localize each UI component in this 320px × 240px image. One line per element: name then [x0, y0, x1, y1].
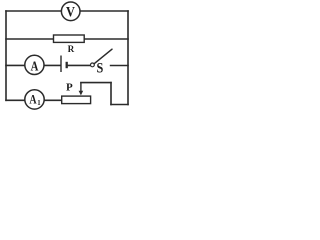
svg-text:P: P	[66, 82, 73, 94]
rheostat body box	[62, 96, 91, 104]
rheostat P (slide resistor)	[62, 83, 91, 104]
wire: rheostat slider to right step corner	[81, 82, 111, 84]
wire: battery branch, left edge to ammeter A	[6, 64, 25, 66]
wire: ammeter A1 to rheostat P left terminal	[44, 99, 62, 101]
wire: left vertical side	[5, 11, 7, 100]
svg-text:A: A	[31, 58, 39, 74]
wire: top side, right of voltmeter	[80, 10, 128, 12]
battery short thick plate (-)	[66, 62, 68, 68]
ammeter A1	[25, 90, 44, 109]
wire: middle branch left lead to resistor R	[6, 38, 54, 40]
svg-text:S: S	[96, 59, 103, 75]
ammeter A	[25, 55, 44, 74]
wire: switch right contact to right side	[111, 65, 128, 67]
switch blade (open)	[94, 49, 112, 64]
switch pivot dot	[91, 63, 95, 67]
svg-text:R: R	[68, 44, 75, 54]
svg-text:A: A	[29, 94, 36, 107]
switch S	[91, 49, 113, 67]
svg-text:1: 1	[37, 100, 41, 107]
wire: battery to switch pivot	[68, 64, 91, 66]
battery long plate (+)	[60, 56, 62, 73]
wire: ammeter A to battery	[44, 64, 60, 66]
rheostat slider stem	[80, 83, 82, 92]
battery cell	[61, 56, 67, 73]
voltmeter V	[61, 2, 80, 21]
wire: bottom right segment to right side	[111, 104, 128, 106]
wire: bottom side, left edge to ammeter A1	[6, 99, 25, 101]
wire: top side, left of voltmeter	[6, 10, 62, 12]
wire: step vertical down from slider wire	[110, 83, 112, 105]
resistor R	[54, 35, 85, 42]
svg-text:V: V	[66, 3, 75, 19]
wire: right vertical side	[127, 11, 129, 105]
rheostat slider arrowhead	[79, 91, 84, 96]
wire: middle branch right lead from resistor R	[84, 38, 128, 40]
